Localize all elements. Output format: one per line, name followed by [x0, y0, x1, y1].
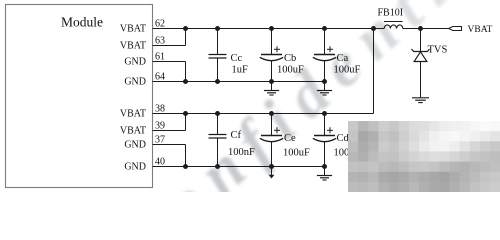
wire pin 39 stub — [153, 130, 186, 132]
wire pin 37 stub — [153, 144, 186, 146]
wire vertical 37 to 40 — [185, 145, 187, 167]
junction dot pins 37/40 — [183, 164, 188, 169]
junction dot pins 62/63 — [183, 26, 188, 31]
svg-text:VBAT: VBAT — [120, 108, 146, 119]
svg-text:GND: GND — [124, 161, 146, 172]
svg-text:38: 38 — [155, 103, 165, 114]
capacitor Ca 100uF — [313, 26, 361, 84]
capacitor Cf 100nF — [209, 111, 256, 169]
junction dot rail1/rail2 — [371, 26, 376, 31]
svg-text:100nF: 100nF — [228, 147, 255, 158]
svg-text:100uF: 100uF — [283, 148, 310, 159]
wire pin 63 stub — [153, 45, 186, 47]
svg-text:39: 39 — [155, 120, 165, 131]
ferrite bead FB101 bar — [384, 21, 403, 23]
junction dot pins 61/64 — [183, 79, 188, 84]
svg-text:61: 61 — [155, 51, 165, 62]
svg-text:62: 62 — [155, 18, 165, 29]
wire pin 62 / VBAT rail 1 to ferrite bead — [153, 28, 385, 30]
wire TVS to ground — [420, 62, 422, 98]
svg-text:GND: GND — [124, 139, 146, 150]
svg-text:Cc: Cc — [231, 53, 243, 64]
svg-text:TVS: TVS — [428, 45, 448, 56]
wire vertical 63 to 62 — [185, 29, 187, 46]
svg-text:Cf: Cf — [231, 130, 242, 141]
svg-text:VBAT: VBAT — [120, 23, 146, 34]
wire pin 64 / GND rail 1 — [153, 81, 325, 83]
wire VBAT rail 2 up to rail 1 — [373, 29, 375, 114]
svg-text:Cb: Cb — [284, 53, 296, 64]
net tag VBAT — [449, 27, 462, 31]
wire pin 40 / GND rail 2 — [153, 166, 325, 168]
svg-text:64: 64 — [155, 71, 165, 82]
junction dot pins 38/39 — [183, 111, 188, 116]
pixelated watermark block — [348, 121, 500, 192]
ferrite bead FB101 coil — [384, 25, 403, 29]
watermark text — [150, 0, 470, 239]
wire FB101 to VBAT tag — [403, 28, 449, 30]
svg-text:100uF: 100uF — [277, 64, 304, 75]
svg-text:VBAT: VBAT — [120, 125, 146, 136]
svg-text:GND: GND — [124, 56, 146, 67]
ground under Ca — [317, 82, 332, 96]
svg-text:VBAT: VBAT — [468, 25, 493, 35]
svg-text:Ca: Ca — [337, 53, 349, 64]
wire vertical 61 to 64 — [185, 62, 187, 82]
svg-text:Cd: Cd — [337, 133, 350, 144]
capacitor Cc 1uF — [209, 26, 249, 84]
wire TVS top — [420, 29, 422, 52]
svg-text:37: 37 — [155, 134, 165, 145]
svg-text:63: 63 — [155, 35, 165, 46]
svg-text:Module: Module — [61, 15, 103, 30]
wire pin 38 / VBAT rail 2 — [153, 113, 374, 115]
svg-text:GND: GND — [124, 76, 146, 87]
junction dot TVS branch — [418, 26, 423, 31]
wire pin 61 stub — [153, 61, 186, 63]
svg-text:1uF: 1uF — [232, 65, 249, 76]
capacitor Cd 100uF — [313, 111, 361, 169]
arrow ground under Ce — [269, 167, 275, 179]
ground under Cd — [317, 167, 332, 181]
svg-text:100uF: 100uF — [334, 64, 361, 75]
ground under TVS — [412, 98, 429, 103]
svg-text:Ce: Ce — [284, 133, 296, 144]
capacitor Ce 100uF — [260, 111, 310, 169]
ground under Cb — [264, 82, 279, 96]
capacitor Cb 100uF — [260, 26, 304, 84]
svg-text:40: 40 — [155, 156, 165, 167]
module U1 box — [6, 5, 153, 188]
svg-text:VBAT: VBAT — [120, 40, 146, 51]
TVS diode — [412, 49, 430, 62]
wire vertical 39 to 38 — [185, 114, 187, 131]
svg-text:FB10I: FB10I — [378, 8, 404, 19]
